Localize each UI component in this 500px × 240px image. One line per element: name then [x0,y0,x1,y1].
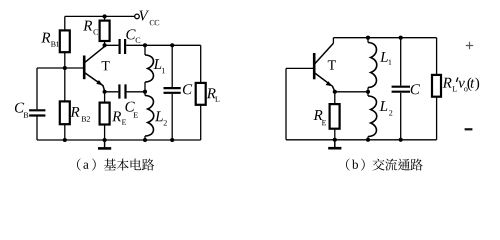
inductor L1 a [145,55,153,82]
label C a [183,84,192,94]
caption 通 [398,159,410,171]
inductor L1 b [368,43,377,88]
label L2 a [155,111,163,121]
junction: C bottom a [170,138,174,142]
VCC terminal [135,14,140,19]
junction: L2 bottom b [366,138,370,142]
plus sign [466,42,473,49]
wire: left rail b [285,68,287,139]
caption (b) paren close [361,158,365,170]
minus sign [465,128,473,130]
label RC [83,21,92,31]
capacitor C a [164,88,181,93]
transistor T a [83,56,86,80]
caption 基 [104,159,116,171]
wire: L branch segments b [367,38,369,140]
junction: emitter node b [333,90,337,94]
wire: bottom ground rail a [37,139,201,141]
prime mark [456,77,458,82]
caption (b) paren open [346,158,350,170]
label T a [102,61,110,70]
wire: CB branch vertical [36,68,38,140]
junction: RE bottom a [103,138,107,142]
junction: C top a [170,43,174,47]
wire: emitter to CE to L tap [105,91,145,93]
label T b [328,60,336,69]
wire: L branch segments a [144,45,146,140]
ground b [334,140,336,147]
label RE b [313,110,322,120]
label CE [125,102,134,112]
resistor RL a [196,83,206,105]
junction: VCC rail / RC [103,14,107,18]
junction: L tap b [366,90,370,94]
wire: RE branch b [334,92,336,140]
label RE a [112,111,121,121]
label VCC [139,11,149,21]
inductor L2 a [145,96,154,137]
junction: L2 bottom a [143,138,147,142]
capacitor CC [120,39,126,54]
label RL a [207,88,216,98]
wire: left bias rail through RB1/RB2 [64,16,66,140]
label L1 a [154,59,162,69]
junction: emitter node a [103,90,107,94]
junction: RE bottom b [333,138,337,142]
wire: top rail a (VCC feed) [65,15,135,17]
caption 路 a [142,159,154,171]
wire: C branch b [400,38,402,140]
junction: RB2 bottom [63,138,67,142]
wire: base wire b [286,67,314,69]
caption 路 b [410,159,422,171]
transistor T b [313,53,316,79]
wire: emitter to tap b [335,91,368,93]
junction: L1 top b [366,36,370,40]
inductor L2 b [368,96,377,137]
resistor RL' b [432,75,441,97]
wire: collector node to CC to L1 top [105,44,145,46]
caption (a) letter [83,163,88,169]
label RB2 [70,107,79,117]
resistor RE a [100,103,110,125]
label C b [411,84,420,94]
capacitor CB [29,110,45,115]
wire: RL branch a [200,45,202,140]
caption 流 [385,159,397,171]
wire: top rail right a [145,44,201,46]
junction: L1 top a [143,43,147,47]
capacitor C b [392,87,410,92]
junction: base node a [63,66,67,70]
wire: top rail b [333,38,436,44]
label vo(t) [458,81,464,88]
junction: L1-L2 tap a [143,90,147,94]
capacitor CE [119,84,125,98]
label RB1 [41,33,50,43]
resistor RB1 [60,30,70,52]
resistor RB2 [60,101,70,124]
resistor RE b [330,104,340,129]
wire: RL branch b [436,38,438,140]
caption (a) paren open [77,158,81,170]
label L1 b [380,52,388,62]
label L2 b [380,101,388,111]
caption (b) letter [352,160,358,169]
wire: C branch a [171,45,173,140]
junction: C bottom b [399,138,403,142]
label CB [15,103,24,113]
caption (a) paren close [92,158,96,170]
wire: bottom rail b [286,139,437,141]
resistor RC [100,21,110,41]
junction: C top b [399,36,403,40]
ground a [104,140,106,147]
label RL' vo(t) [443,78,452,88]
label CC [126,29,135,39]
wire: base wire a [37,67,84,69]
wire: RE branch a [104,92,106,140]
wire: RC branch [104,16,106,45]
caption 本 [117,159,129,171]
junction: collector node a [103,43,107,47]
caption 电 [131,159,142,171]
caption 交 [373,159,385,171]
